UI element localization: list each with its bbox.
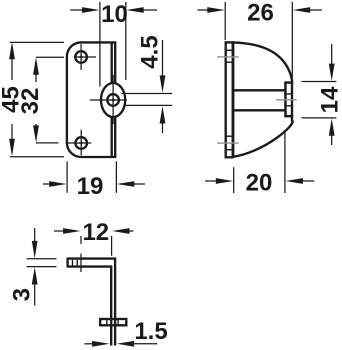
side view boss rect — [286, 83, 293, 117]
svg-text:3: 3 — [9, 288, 36, 301]
dim 45 top ext line — [10, 41, 64, 43]
svg-text:12: 12 — [82, 219, 109, 246]
dim 3 upper arrow — [34, 228, 36, 242]
dim 14 lower ext line — [302, 117, 337, 119]
dim 20 right arrow — [302, 180, 314, 182]
svg-text:32: 32 — [17, 88, 44, 115]
side view bottom hole center line — [217, 142, 239, 144]
dim 45 bottom ext line — [10, 156, 64, 158]
dim 14 upper arrow — [331, 44, 333, 65]
svg-text:19: 19 — [77, 173, 104, 200]
dim 26 right arrow — [309, 9, 322, 11]
boss ellipse — [101, 83, 125, 117]
dim 4.5 lower ext line — [124, 104, 172, 106]
dim 14 upper ext line — [302, 81, 337, 83]
dim 12 right arrow — [129, 230, 134, 232]
svg-text:20: 20 — [246, 169, 273, 196]
dim 32 line + arrows — [35, 73, 37, 82]
side view bottom hole lines — [226, 135, 233, 137]
dim 10 left arrow — [70, 9, 84, 11]
dim 32 top ext line — [36, 56, 64, 58]
dim 19 right ext line — [115, 161, 117, 193]
svg-text:4.5: 4.5 — [137, 35, 164, 68]
dim 3 upper ext line — [27, 258, 57, 260]
dim 19 left ext line — [66, 161, 68, 193]
dim 10 right arrow — [143, 9, 157, 11]
dim 4.5 upper arrow — [162, 40, 164, 77]
side view plate — [226, 42, 233, 157]
svg-text:10: 10 — [101, 1, 128, 28]
svg-text:14: 14 — [317, 86, 342, 113]
dim 4.5 lower arrow — [162, 123, 164, 134]
dim 45 line + arrows — [11, 58, 13, 80]
side view dome — [233, 42, 292, 156]
dim 12 left arrow — [54, 230, 65, 232]
svg-text:1.5: 1.5 — [134, 318, 167, 345]
side view boss hole ticks — [286, 93, 293, 95]
dim 26 right ext line — [291, 2, 293, 78]
dim 20 right ext line — [284, 131, 286, 193]
L profile outer path — [68, 258, 116, 346]
dim 19 left arrow — [43, 183, 51, 185]
dim 3 lower ext line — [27, 266, 57, 268]
dim 19 right arrow — [133, 183, 145, 185]
L bottom block — [100, 319, 126, 325]
dim 12 left ext line — [80, 236, 82, 244]
side view top hole center line — [217, 56, 239, 58]
dim 20 left ext line — [233, 167, 235, 193]
dim 4.5 upper ext line — [122, 93, 173, 95]
top hole — [75, 51, 87, 63]
svg-text:26: 26 — [247, 0, 274, 26]
front view inner right edge line — [111, 42, 113, 157]
side view boss center line — [276, 99, 297, 101]
dim 3 lower arrow — [34, 284, 36, 306]
boss hole center lines — [90, 99, 127, 101]
dim 1.5 left arrow — [85, 343, 95, 345]
side view channel lines — [233, 89, 286, 91]
dim 10 ext line left — [99, 2, 101, 87]
front view plate outline — [67, 42, 115, 157]
bottom hole — [75, 137, 87, 149]
dim 12 right ext line — [111, 236, 113, 256]
dim 26 left ext line — [224, 2, 226, 40]
L profile crossing line — [80, 254, 82, 272]
boss hole — [107, 94, 119, 106]
dim 1.5 right arrow — [132, 343, 157, 345]
dim 32 bottom ext line — [36, 142, 59, 144]
dim 10 ext line right — [125, 2, 127, 80]
dim 14 lower arrow — [331, 135, 333, 145]
side view top hole lines — [226, 49, 233, 51]
dim 26 left arrow — [198, 9, 210, 11]
L profile ticks — [72, 260, 74, 266]
dim 20 left arrow — [205, 180, 217, 182]
